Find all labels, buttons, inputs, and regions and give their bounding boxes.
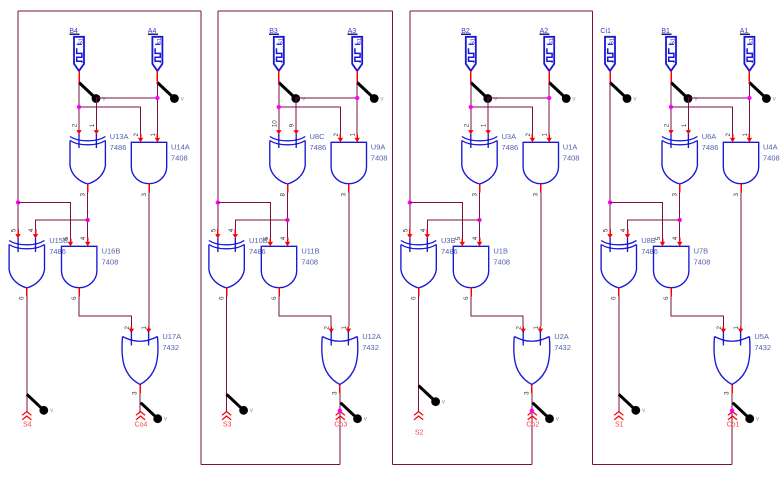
- U2A pin 2 lead: [521, 327, 526, 334]
- wire U1B out to U2A pin 2: [471, 297, 523, 327]
- U8C pin 10 lead: [276, 130, 281, 135]
- svg-text:3: 3: [141, 193, 148, 197]
- svg-text:U16B: U16B: [102, 246, 121, 255]
- svg-text:3: 3: [533, 193, 540, 197]
- wire B4 down to U13A pin 2: [78, 83, 80, 130]
- output connector S2: [414, 412, 423, 437]
- junction carry-in block 3: [216, 200, 220, 204]
- carry loop top net C4: [18, 10, 201, 12]
- junction A1: [747, 96, 751, 100]
- U7B pin 4 lead: [677, 238, 682, 247]
- pin stub A1: [748, 71, 750, 83]
- AND gate U14A 7408: [131, 142, 166, 183]
- junction Co3: [338, 409, 342, 413]
- carry loop bottom net C4: [201, 464, 340, 466]
- output connector S3: [222, 412, 231, 429]
- junction U8C out: [285, 218, 289, 222]
- junction U6A out: [678, 218, 682, 222]
- junction Co2: [530, 409, 534, 413]
- svg-text:S4: S4: [23, 422, 32, 429]
- label U16B: [102, 246, 121, 266]
- svg-text:S1: S1: [615, 422, 624, 429]
- wire carry out Co2: [531, 393, 533, 465]
- svg-text:5: 5: [210, 228, 217, 232]
- probe on Ci1: [610, 83, 637, 103]
- svg-text:U7B: U7B: [694, 246, 709, 255]
- svg-text:1: 1: [533, 326, 540, 330]
- XOR gate U3A 7486: [462, 134, 497, 184]
- svg-text:7408: 7408: [763, 154, 780, 163]
- svg-text:7486: 7486: [49, 247, 66, 256]
- wire carry-in to U11B pin 5: [218, 203, 270, 239]
- svg-text:7408: 7408: [493, 258, 510, 267]
- label U3B: [441, 236, 458, 256]
- probe on B4: [79, 83, 106, 103]
- carry loop top net C2: [410, 10, 593, 12]
- U4A output stub pin 3: [740, 184, 742, 193]
- svg-text:U6A: U6A: [702, 132, 717, 141]
- output connector S1: [614, 412, 623, 429]
- svg-text:U2A: U2A: [554, 332, 569, 341]
- carry-in wire net C3 vertical: [217, 11, 219, 229]
- AND gate U11B 7408: [261, 246, 296, 287]
- probe on S2: [419, 386, 446, 406]
- wire A4 down to U14A pin 1: [156, 83, 158, 135]
- svg-text:1: 1: [681, 123, 688, 127]
- AND gate U7B 7408: [654, 246, 689, 287]
- pin stub B2: [470, 71, 472, 83]
- wire A2 to U3A pin 1: [488, 98, 549, 130]
- U15B pin 5 lead: [15, 229, 20, 239]
- U1A pin 2 lead: [530, 134, 535, 142]
- svg-text:2: 2: [516, 326, 523, 330]
- svg-text:7408: 7408: [171, 154, 188, 163]
- label U10B: [249, 236, 268, 256]
- OR gate U17A 7432: [122, 331, 158, 385]
- U7B pin 5 lead: [660, 239, 665, 247]
- junction U3A out: [477, 218, 481, 222]
- svg-text:U17A: U17A: [162, 332, 181, 341]
- svg-text:U1A: U1A: [563, 142, 578, 151]
- probe on A3: [357, 83, 384, 103]
- XOR gate U6A 7486: [662, 134, 697, 184]
- probe on Co4: [141, 403, 168, 423]
- XOR gate U10B 7486: [209, 238, 244, 288]
- svg-text:6: 6: [71, 296, 78, 300]
- label U4A: [763, 142, 780, 162]
- U8B pin 4 lead: [625, 229, 630, 239]
- U6A pin 2 lead: [668, 130, 673, 135]
- wire A1 down to U4A pin 1: [748, 83, 750, 135]
- carry loop right edge net C3: [391, 11, 393, 465]
- wire carry-in to U1B pin 5: [410, 203, 463, 239]
- svg-text:9: 9: [289, 123, 296, 127]
- svg-text:7408: 7408: [301, 258, 318, 267]
- svg-text:7486: 7486: [110, 143, 127, 152]
- probe on B1: [671, 83, 698, 103]
- U3A pin 1 lead: [486, 130, 491, 135]
- svg-text:2: 2: [72, 123, 79, 127]
- svg-text:U3A: U3A: [502, 132, 517, 141]
- svg-text:7432: 7432: [362, 343, 379, 352]
- U14A pin 2 lead: [138, 134, 143, 142]
- carry-in wire net C4 vertical: [17, 11, 19, 229]
- svg-text:2: 2: [133, 133, 140, 137]
- wire U8C out down to U11B pin 4: [287, 193, 289, 238]
- probe on B3: [279, 83, 306, 103]
- junction Co1: [730, 409, 734, 413]
- probe on Co1: [733, 403, 760, 423]
- svg-text:7486: 7486: [310, 143, 327, 152]
- U3B pin 4 lead: [425, 229, 430, 239]
- svg-text:Co2: Co2: [526, 422, 539, 429]
- U16B pin 4 lead: [85, 238, 90, 247]
- U15B output stub pin 6: [26, 288, 28, 297]
- svg-text:2: 2: [525, 133, 532, 137]
- svg-text:3: 3: [341, 193, 348, 197]
- U8C output stub pin 8: [287, 184, 289, 193]
- svg-text:5: 5: [455, 236, 462, 240]
- U15B pin 4 lead: [33, 229, 38, 239]
- wire U4A out down to U5A pin 1: [740, 193, 742, 327]
- U3B pin 5 lead: [407, 229, 412, 239]
- U8B pin 5 lead: [607, 229, 612, 239]
- probe on A1: [749, 83, 776, 103]
- U13A pin 1 lead: [94, 130, 99, 135]
- svg-text:3: 3: [672, 193, 679, 197]
- svg-text:U8C: U8C: [310, 132, 326, 141]
- svg-text:3: 3: [724, 391, 731, 395]
- U12A pin 2 lead: [329, 327, 334, 334]
- input connector A3: [348, 28, 363, 71]
- U14A output stub pin 3: [148, 184, 150, 193]
- carry loop right edge net C2: [591, 11, 593, 465]
- svg-text:Ci1: Ci1: [600, 28, 611, 35]
- U3B output stub pin 6: [418, 288, 420, 297]
- svg-text:5: 5: [655, 236, 662, 240]
- wire U8C out to U10B pin 4: [235, 220, 287, 229]
- svg-text:10: 10: [271, 120, 278, 128]
- input connector A2: [540, 28, 555, 71]
- svg-text:6: 6: [218, 296, 225, 300]
- svg-text:3: 3: [471, 193, 478, 197]
- label U6A: [702, 132, 719, 152]
- input connector B2: [461, 28, 476, 71]
- svg-text:7486: 7486: [441, 247, 458, 256]
- svg-text:1: 1: [350, 133, 357, 137]
- U11B output stub pin 6: [278, 288, 280, 297]
- label U12A: [362, 332, 381, 352]
- wire sum S1: [618, 297, 620, 412]
- U2A output stub pin 3: [531, 385, 533, 394]
- svg-text:U8B: U8B: [641, 236, 656, 245]
- svg-text:6: 6: [611, 296, 618, 300]
- wire U1A out down to U2A pin 1: [540, 193, 542, 327]
- output connector Co2: [526, 412, 539, 429]
- wire B1 to U4A pin 2: [671, 107, 733, 134]
- junction B1: [669, 105, 673, 109]
- wire U13A out down to U16B pin 4: [87, 193, 89, 238]
- svg-text:1: 1: [141, 326, 148, 330]
- output connector Co1: [727, 412, 740, 429]
- svg-text:2: 2: [124, 326, 131, 330]
- wire U16B out to U17A pin 2: [79, 297, 131, 327]
- U6A output stub pin 3: [679, 184, 681, 193]
- label U1B: [493, 246, 510, 266]
- svg-text:4: 4: [28, 228, 35, 232]
- OR gate U12A 7432: [322, 331, 358, 385]
- U10B output stub pin 6: [226, 288, 228, 297]
- svg-text:2: 2: [725, 133, 732, 137]
- svg-text:U12A: U12A: [362, 332, 381, 341]
- wire carry out Co1: [731, 393, 733, 465]
- U1B pin 5 lead: [460, 239, 465, 247]
- U5A pin 2 lead: [721, 327, 726, 334]
- svg-text:6: 6: [19, 296, 26, 300]
- svg-text:4: 4: [620, 228, 627, 232]
- AND gate U16B 7408: [62, 246, 97, 287]
- U9A output stub pin 3: [348, 184, 350, 193]
- U8B output stub pin 6: [618, 288, 620, 297]
- U9A pin 1 lead: [355, 134, 360, 142]
- wire A2 down to U1A pin 1: [548, 83, 550, 135]
- svg-text:6: 6: [410, 296, 417, 300]
- svg-text:7486: 7486: [249, 247, 266, 256]
- input connector Ci1: [600, 28, 615, 71]
- pin stub A2: [548, 71, 550, 83]
- svg-text:2: 2: [664, 123, 671, 127]
- svg-text:4: 4: [420, 228, 427, 232]
- probe on Co2: [533, 403, 560, 423]
- svg-text:1: 1: [341, 326, 348, 330]
- svg-text:1: 1: [733, 326, 740, 330]
- input connector B3: [269, 28, 284, 71]
- pin stub B3: [278, 71, 280, 83]
- svg-text:1: 1: [89, 123, 96, 127]
- U6A pin 1 lead: [686, 130, 691, 135]
- svg-text:1: 1: [150, 133, 157, 137]
- wire B3 to U9A pin 2: [279, 107, 341, 134]
- svg-text:5: 5: [63, 236, 70, 240]
- AND gate U1A 7408: [523, 142, 558, 183]
- U16B pin 5 lead: [68, 239, 73, 247]
- output connector S4: [22, 412, 31, 429]
- wire sum S3: [226, 297, 228, 412]
- svg-text:4: 4: [280, 236, 287, 240]
- probe on S3: [227, 394, 254, 414]
- svg-text:2: 2: [333, 133, 340, 137]
- wire B4 to U14A pin 2: [79, 107, 141, 134]
- svg-text:5: 5: [263, 236, 270, 240]
- AND gate U4A 7408: [723, 142, 758, 183]
- svg-text:Co4: Co4: [135, 422, 148, 429]
- U12A pin 1 lead: [346, 327, 351, 334]
- probe on S4: [27, 394, 54, 414]
- U2A pin 1 lead: [538, 327, 543, 334]
- wire A1 to U6A pin 1: [688, 98, 749, 130]
- junction B4: [77, 105, 81, 109]
- wire B2 down to U3A pin 2: [470, 83, 472, 130]
- wire U14A out down to U17A pin 1: [148, 193, 150, 327]
- svg-text:6: 6: [663, 296, 670, 300]
- svg-text:U11B: U11B: [301, 246, 319, 255]
- input connector B1: [661, 28, 676, 71]
- U7B output stub pin 6: [670, 288, 672, 297]
- svg-text:5: 5: [603, 228, 610, 232]
- input connector B4: [69, 28, 84, 71]
- svg-text:3: 3: [132, 391, 139, 395]
- AND gate U9A 7408: [331, 142, 366, 183]
- U3A output stub pin 3: [479, 184, 481, 193]
- svg-text:5: 5: [402, 228, 409, 232]
- junction A2: [547, 96, 551, 100]
- U1B output stub pin 6: [470, 288, 472, 297]
- U17A pin 2 lead: [129, 327, 134, 334]
- OR gate U5A 7432: [714, 331, 750, 385]
- junction carry-in block 2: [408, 200, 412, 204]
- svg-text:1: 1: [481, 123, 488, 127]
- svg-text:7408: 7408: [563, 154, 580, 163]
- U17A output stub pin 3: [139, 385, 141, 394]
- svg-text:7486: 7486: [702, 143, 719, 152]
- wire U11B out to U12A pin 2: [279, 297, 331, 327]
- U16B output stub pin 6: [78, 288, 80, 297]
- wire sum S4: [26, 297, 28, 412]
- label U5A: [754, 332, 771, 352]
- carry loop top net C3: [218, 10, 393, 12]
- svg-text:U5A: U5A: [754, 332, 769, 341]
- svg-text:3: 3: [331, 391, 338, 395]
- svg-text:1: 1: [742, 133, 749, 137]
- svg-text:7408: 7408: [694, 258, 711, 267]
- junction B2: [469, 105, 473, 109]
- svg-text:U4A: U4A: [763, 142, 778, 151]
- U10B pin 4 lead: [233, 229, 238, 239]
- label U17A: [162, 332, 181, 352]
- svg-text:6: 6: [463, 296, 470, 300]
- U8C pin 9 lead: [294, 130, 299, 135]
- wire Ci1 down to U8B pin 5: [609, 83, 611, 230]
- wire sum S2: [418, 297, 420, 412]
- junction carry-in block 1: [608, 200, 612, 204]
- wire carry-in to U7B pin 5: [610, 203, 663, 239]
- probe on S1: [619, 394, 646, 414]
- wire A3 to U8C pin 9: [296, 98, 357, 130]
- svg-text:U3B: U3B: [441, 236, 456, 245]
- U4A pin 1 lead: [747, 134, 752, 142]
- svg-text:7486: 7486: [502, 143, 519, 152]
- svg-text:8: 8: [279, 193, 286, 197]
- svg-text:U14A: U14A: [171, 142, 190, 151]
- XOR gate U8B 7486: [601, 238, 636, 288]
- svg-text:5: 5: [11, 228, 18, 232]
- svg-text:2: 2: [463, 123, 470, 127]
- U11B pin 5 lead: [268, 239, 273, 247]
- svg-text:7408: 7408: [102, 258, 119, 267]
- svg-text:U1B: U1B: [493, 246, 508, 255]
- label U15B: [49, 236, 68, 256]
- svg-text:3: 3: [80, 193, 87, 197]
- label U8B: [641, 236, 658, 256]
- svg-text:U13A: U13A: [110, 132, 129, 141]
- junction U13A out: [86, 218, 90, 222]
- svg-text:7432: 7432: [754, 343, 771, 352]
- pin stub A4: [156, 71, 158, 83]
- output connector Co3: [334, 412, 347, 429]
- U1A pin 1 lead: [547, 134, 552, 142]
- wire A3 down to U9A pin 1: [356, 83, 358, 135]
- U5A output stub pin 3: [731, 385, 733, 394]
- XOR gate U3B 7486: [401, 238, 436, 288]
- U1A output stub pin 3: [540, 184, 542, 193]
- wire U3A out down to U1B pin 4: [479, 193, 481, 238]
- U9A pin 2 lead: [338, 134, 343, 142]
- label U14A: [171, 142, 190, 162]
- wire U13A out to U15B pin 4: [36, 220, 88, 229]
- svg-text:U9A: U9A: [371, 142, 386, 151]
- U10B pin 5 lead: [215, 229, 220, 239]
- svg-text:2: 2: [324, 326, 331, 330]
- probe on A2: [549, 83, 576, 103]
- U11B pin 4 lead: [285, 238, 290, 247]
- label U11B: [301, 246, 319, 266]
- junction B3: [277, 105, 281, 109]
- wire B2 to U1A pin 2: [471, 107, 533, 134]
- svg-text:S2: S2: [415, 430, 424, 437]
- svg-text:Co1: Co1: [727, 422, 740, 429]
- svg-text:1: 1: [542, 133, 549, 137]
- pin stub B1: [670, 71, 672, 83]
- input connector A1: [740, 28, 755, 71]
- label U13A: [110, 132, 129, 152]
- label U3A: [502, 132, 519, 152]
- wire U6A out to U8B pin 4: [628, 220, 680, 229]
- svg-text:S3: S3: [223, 422, 232, 429]
- svg-text:7408: 7408: [371, 154, 388, 163]
- label U7B: [694, 246, 711, 266]
- XOR gate U15B 7486: [9, 238, 44, 288]
- svg-text:4: 4: [228, 228, 235, 232]
- wire carry-in to U16B pin 5: [18, 203, 71, 239]
- wire U3A out to U3B pin 4: [427, 220, 479, 229]
- carry loop right edge net C4: [200, 11, 202, 465]
- U1B pin 4 lead: [477, 238, 482, 247]
- junction A4: [155, 96, 159, 100]
- probe on Co3: [341, 403, 368, 423]
- pin stub Ci1: [609, 71, 611, 83]
- U14A pin 1 lead: [155, 134, 160, 142]
- U17A pin 1 lead: [146, 327, 151, 334]
- probe on B2: [471, 83, 498, 103]
- carry-in wire net C2 vertical: [409, 11, 411, 229]
- U3A pin 2 lead: [468, 130, 473, 135]
- wire A4 to U13A pin 1: [96, 98, 157, 130]
- pin stub A3: [356, 71, 358, 83]
- svg-text:3: 3: [733, 193, 740, 197]
- svg-text:2: 2: [716, 326, 723, 330]
- wire B1 down to U6A pin 2: [670, 83, 672, 130]
- U12A output stub pin 3: [339, 385, 341, 394]
- wire U6A out down to U7B pin 4: [679, 193, 681, 238]
- U4A pin 2 lead: [730, 134, 735, 142]
- wire carry out Co3: [339, 393, 341, 465]
- svg-text:6: 6: [271, 296, 278, 300]
- label U2A: [554, 332, 571, 352]
- svg-text:4: 4: [472, 236, 479, 240]
- U13A pin 2 lead: [76, 130, 81, 135]
- OR gate U2A 7432: [514, 331, 550, 385]
- wire U7B out to U5A pin 2: [671, 297, 723, 327]
